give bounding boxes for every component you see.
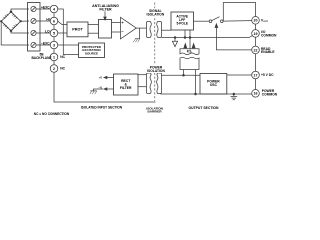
svg-text:FILTER: FILTER — [120, 86, 132, 90]
svg-text:+: + — [121, 20, 124, 25]
junction dot — [233, 93, 236, 96]
wire PS winding stub left — [183, 70, 185, 76]
wire screw to pin4 — [36, 8, 50, 10]
svg-text:NC: NC — [60, 55, 65, 59]
pin 4 terminal — [50, 5, 58, 13]
isolation barrier dashed line — [154, 3, 156, 102]
svg-text:ENABLE: ENABLE — [261, 50, 275, 54]
svg-text:BACKPLANE: BACKPLANE — [31, 56, 51, 60]
box power oscillator — [200, 74, 227, 95]
switch read-enable — [209, 17, 223, 23]
svg-text:COMMON: COMMON — [261, 34, 277, 38]
box P.S. — [180, 49, 199, 55]
wire screw to pin3 — [36, 44, 50, 46]
wire LPF ground stub — [184, 30, 186, 37]
pin 19 I/O common — [252, 30, 260, 38]
wire screw to pin6 — [36, 20, 50, 22]
backplane screw terminal strip — [28, 3, 41, 52]
wire LPF to switch — [194, 20, 210, 22]
wire PS winding stub right — [195, 70, 197, 95]
pin 5 terminal — [50, 29, 58, 37]
wire +EXC down to excitation source — [58, 9, 79, 55]
supply arrow 1 — [183, 42, 187, 48]
switch control arrow — [215, 23, 219, 28]
anti-aliasing filter label arrow — [104, 11, 106, 16]
svg-text:4: 4 — [53, 7, 55, 11]
input common symbol — [90, 91, 97, 94]
input common symbol under amp — [133, 39, 139, 42]
box active LPF — [171, 12, 194, 30]
svg-text:5: 5 — [53, 31, 55, 35]
svg-text:LO: LO — [45, 29, 50, 33]
wire pin2 down to rect&filter — [54, 72, 156, 102]
box protected excitation source — [79, 43, 105, 58]
svg-text:OUTPUT SECTION: OUTPUT SECTION — [189, 106, 220, 110]
svg-text:20: 20 — [254, 19, 258, 23]
box anti-aliasing filter — [99, 20, 112, 39]
+V arrow — [107, 77, 113, 79]
wire terminal rail segments — [53, 13, 55, 65]
screw terminal +EXC — [31, 6, 36, 11]
pin 22 read enable — [252, 46, 260, 54]
wire read enable control — [216, 28, 251, 50]
wire screw to pin5 — [36, 32, 50, 34]
pin 3 terminal — [50, 41, 58, 49]
svg-text:ISOLATED INPUT SECTION: ISOLATED INPUT SECTION — [81, 105, 123, 109]
wire rect to transformer bottom — [138, 86, 147, 88]
svg-text:VOUT: VOUT — [261, 19, 269, 24]
supply arrow 2 — [192, 42, 196, 48]
wire output loop — [223, 3, 255, 22]
wire power common — [161, 92, 252, 95]
power isolation transformer right winding — [157, 73, 162, 94]
svg-text:NC: NC — [60, 67, 65, 71]
svg-text:+EXC: +EXC — [41, 5, 50, 9]
svg-text:22: 22 — [254, 48, 258, 52]
wire amp common to input common — [135, 28, 140, 39]
screw terminal -EXC — [31, 42, 36, 47]
svg-text:COMMON: COMMON — [262, 93, 278, 97]
common bus wire — [162, 36, 253, 38]
svg-text:6: 6 — [53, 19, 55, 23]
pin 2 terminal — [50, 65, 58, 73]
wire -EXC to excitation source — [58, 44, 79, 46]
PS winding band — [180, 57, 199, 69]
power isolation transformer left winding — [147, 73, 152, 94]
wire AA box to amp - — [112, 31, 121, 33]
pin 20 Vout — [252, 17, 260, 25]
svg-text:−: − — [121, 29, 124, 34]
wire amp out to transformer — [136, 27, 146, 29]
wire rect to transformer top — [138, 74, 147, 76]
screw terminal LO — [31, 30, 36, 35]
svg-text:19: 19 — [254, 32, 258, 36]
svg-text:1: 1 — [53, 55, 55, 59]
junction dot — [184, 36, 187, 39]
svg-text:−V: −V — [99, 85, 103, 89]
node top corner dot — [10, 11, 13, 14]
ground — [231, 94, 238, 100]
op-amp chopper — [121, 17, 137, 39]
wire HI to PROT — [58, 21, 67, 24]
signal isolation transformer right winding — [157, 22, 162, 38]
junction dot — [189, 36, 192, 39]
pin 6 terminal — [50, 17, 58, 25]
wire power osc to +5V — [227, 74, 252, 76]
svg-text:HI: HI — [46, 17, 49, 21]
wire PROT to AA filter box LO — [88, 32, 99, 34]
screw terminal HI — [31, 18, 36, 23]
wire switch to Vout — [223, 20, 252, 23]
svg-text:2: 2 — [53, 67, 55, 71]
wire -V to input common — [94, 89, 104, 91]
wire power bus top — [162, 74, 201, 76]
svg-text:17: 17 — [254, 73, 258, 77]
junction dot — [174, 36, 177, 39]
wire AA box to amp + — [112, 22, 121, 24]
svg-text:+V: +V — [99, 76, 103, 80]
wire transformer to LPF — [162, 29, 172, 31]
pin 1 terminal — [50, 53, 58, 61]
label power isolation — [145, 65, 167, 74]
svg-text:FILTER: FILTER — [99, 8, 112, 12]
svg-text:−EXC: −EXC — [41, 41, 50, 45]
pin 16 power common — [252, 90, 260, 98]
svg-text:PROT: PROT — [72, 28, 83, 32]
right terminal rail segments — [255, 24, 257, 89]
junction dot — [182, 74, 185, 77]
svg-text:NC = NO CONNECTION: NC = NO CONNECTION — [34, 112, 70, 116]
svg-text:3: 3 — [53, 43, 55, 47]
svg-text:5-POLE: 5-POLE — [176, 21, 188, 25]
bridge sensor — [1, 12, 21, 31]
wire LO to PROT — [58, 32, 67, 34]
svg-text:16: 16 — [254, 92, 258, 96]
node bottom corner dot — [10, 30, 13, 33]
pin 17 +5V — [252, 71, 260, 79]
label signal isolation — [146, 8, 166, 16]
svg-text:SOURCE: SOURCE — [85, 51, 98, 55]
signal isolation transformer left winding — [147, 22, 152, 38]
box rect & filter — [114, 74, 139, 95]
box PROT — [67, 22, 88, 37]
wire LPF to PS — [189, 30, 191, 50]
wire bridge right to HI screw — [21, 20, 29, 22]
open common arrow — [174, 38, 176, 42]
-V arrow — [107, 88, 113, 90]
wire bridge left to -EXC screw — [1, 21, 29, 45]
svg-text:P.S.: P.S. — [187, 50, 193, 54]
wire PROT to AA filter box HI — [88, 24, 99, 26]
svg-text:ISOLATION: ISOLATION — [147, 13, 165, 17]
svg-text:BARRIER: BARRIER — [148, 110, 163, 114]
wire bridge bottom to LO screw — [11, 31, 29, 33]
wire bridge top to +EXC screw — [11, 9, 29, 12]
svg-text:ISOLATION: ISOLATION — [147, 69, 165, 73]
svg-text:OSC: OSC — [210, 83, 218, 87]
svg-text:+5 V DC: +5 V DC — [261, 73, 274, 77]
